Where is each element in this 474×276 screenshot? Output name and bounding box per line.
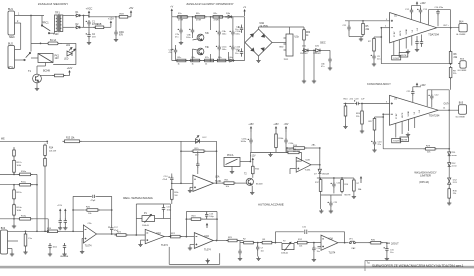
wire T1 emitter bbox=[36, 82, 38, 86]
svg-text:OUT+: OUT+ bbox=[443, 25, 449, 27]
svg-text:BU3: BU3 bbox=[1, 228, 6, 230]
wire to U1C bbox=[126, 234, 145, 236]
supply arrow bbox=[59, 209, 61, 214]
capacitor C5a decoupling bbox=[59, 219, 62, 225]
pin wire amp2 a bbox=[407, 119, 409, 131]
resistor R10a bbox=[18, 173, 33, 176]
bridge rectifier M1b bbox=[245, 29, 272, 56]
capacitor bbox=[384, 246, 389, 252]
ground U1B noninverting bbox=[82, 237, 83, 239]
capacitor C20 feedback bbox=[371, 140, 376, 146]
fuse B1 bbox=[48, 42, 62, 45]
capacitor C7 mute bbox=[415, 40, 418, 46]
wire bbox=[115, 35, 117, 38]
ground bbox=[62, 252, 66, 256]
wire contact to collector rail bbox=[240, 161, 250, 163]
svg-text:10k: 10k bbox=[299, 246, 302, 248]
wire column down bbox=[44, 168, 46, 232]
junction bbox=[319, 164, 321, 166]
wire relay to T1 bbox=[45, 63, 47, 67]
wire bbox=[111, 231, 113, 234]
wire to U1D bbox=[180, 236, 194, 238]
wire to T1 collector bbox=[36, 66, 38, 74]
resistor R12a bbox=[13, 188, 16, 200]
supply arrow +15V a bbox=[250, 126, 252, 132]
svg-text:BU4: BU4 bbox=[459, 21, 464, 23]
connector BU1 (mains) bbox=[8, 11, 15, 35]
op-amp U3A TL074 bbox=[321, 235, 338, 250]
junction bbox=[192, 60, 194, 62]
resistor R6c lower bbox=[189, 59, 202, 62]
wire to R7 bbox=[374, 36, 381, 38]
wire jog bbox=[239, 241, 241, 243]
svg-text:AUTOWLACZANIE: AUTOWLACZANIE bbox=[258, 203, 284, 207]
wire bbox=[320, 195, 322, 209]
svg-text:+V: +V bbox=[170, 6, 173, 9]
junction bbox=[83, 15, 85, 17]
svg-text:63V: 63V bbox=[119, 35, 124, 37]
svg-text:47u: 47u bbox=[169, 52, 172, 54]
wire bbox=[59, 224, 61, 226]
wire bbox=[289, 169, 291, 175]
capacitor C25 bbox=[328, 201, 333, 207]
wire rail to amp2 bbox=[450, 78, 452, 90]
svg-text:BC548: BC548 bbox=[43, 71, 51, 73]
ground bbox=[250, 191, 254, 195]
wire bbox=[275, 231, 303, 233]
pin wire 10 bbox=[411, 36, 413, 46]
wire cross-couple 2 bbox=[193, 49, 198, 50]
resistor R1B bbox=[93, 26, 106, 29]
wire bbox=[59, 214, 61, 220]
wire bbox=[381, 242, 387, 244]
resistor R7c lower bbox=[203, 59, 216, 62]
svg-text:10u: 10u bbox=[235, 29, 238, 31]
bootstrap wire amp2 bbox=[427, 89, 449, 91]
junction bbox=[72, 209, 74, 211]
wire collector up bbox=[249, 152, 251, 161]
junction bbox=[210, 16, 212, 18]
wire bbox=[301, 152, 303, 161]
supply arrow +12V at T1 bbox=[68, 70, 70, 76]
svg-text:R1c: R1c bbox=[178, 13, 182, 15]
capacitor C7b bbox=[178, 28, 183, 34]
wire bbox=[171, 183, 173, 189]
svg-text:KONCOWKA MOCY: KONCOWKA MOCY bbox=[367, 82, 391, 86]
wire bbox=[448, 166, 450, 177]
wire bbox=[218, 36, 220, 44]
svg-text:R17a: R17a bbox=[17, 162, 23, 164]
junction bbox=[171, 182, 173, 184]
op-amp U2 TDA7294 (power amp 1) bbox=[390, 13, 437, 43]
op-amp U1D TL074 bbox=[194, 233, 213, 249]
wire bbox=[416, 45, 418, 48]
wire to U1 inverting bbox=[58, 230, 84, 232]
resistor R3 (T1 base) bbox=[53, 74, 66, 77]
resistor R15b bbox=[44, 157, 47, 168]
wire bbox=[239, 254, 241, 256]
svg-text:R7c: R7c bbox=[205, 57, 209, 59]
wire bbox=[241, 55, 243, 57]
ground bbox=[230, 170, 234, 174]
wire BU1 pin2 bbox=[15, 22, 21, 24]
wire bbox=[361, 126, 363, 130]
capacitor C13b on rail bbox=[172, 48, 177, 54]
junction bbox=[303, 50, 305, 52]
capacitor C3a bias bbox=[48, 244, 51, 250]
wire limiter column top bbox=[448, 149, 450, 151]
svg-text:REG. WZMACNIANIA: REG. WZMACNIANIA bbox=[123, 196, 153, 200]
wire bbox=[320, 178, 322, 180]
wire box right bbox=[216, 141, 218, 183]
wire bbox=[130, 16, 132, 17]
wire bbox=[252, 163, 254, 166]
wire bbox=[110, 26, 112, 28]
wire feedback node down bbox=[382, 114, 384, 149]
wire bbox=[180, 34, 182, 40]
wire bbox=[98, 209, 112, 211]
op-amp U1B TL074 bbox=[83, 225, 96, 243]
capacitor C9b bbox=[216, 30, 221, 36]
junction bbox=[313, 50, 315, 52]
junction bbox=[275, 242, 277, 244]
svg-text:MUTE: MUTE bbox=[401, 55, 407, 57]
wire bbox=[111, 196, 113, 226]
svg-text:TDA7294: TDA7294 bbox=[429, 114, 440, 117]
connector BU6 bbox=[460, 61, 466, 68]
wire bbox=[341, 178, 343, 180]
wire bbox=[345, 104, 347, 107]
svg-text:ST-BY: ST-BY bbox=[393, 58, 399, 60]
ground bbox=[63, 226, 67, 230]
transistor T3b bbox=[197, 48, 204, 55]
wire to mute rail bbox=[319, 148, 321, 165]
capacitor C10b bbox=[230, 30, 235, 36]
resistor R5 input bias bbox=[362, 22, 365, 36]
wire bbox=[320, 193, 322, 195]
svg-text:+VCC: +VCC bbox=[86, 8, 93, 11]
wire bbox=[275, 132, 277, 134]
wire bbox=[164, 203, 171, 205]
wire bbox=[218, 51, 220, 61]
ground bbox=[12, 224, 16, 228]
box MUTE amp2 bbox=[400, 137, 409, 141]
wire cross-couple 1 bbox=[193, 39, 198, 40]
resistor R26c bbox=[242, 241, 256, 244]
junction bbox=[344, 242, 346, 244]
wire input 3 bbox=[0, 218, 20, 220]
ground bbox=[372, 148, 376, 152]
junction bbox=[361, 103, 363, 105]
ground bbox=[206, 259, 210, 263]
svg-text:R10a: R10a bbox=[21, 171, 27, 173]
svg-text:25V: 25V bbox=[92, 37, 96, 39]
resistor R26 input bias bbox=[361, 110, 364, 126]
wire to fuse B1 bbox=[31, 42, 48, 44]
resistor R6b (bleeder) bbox=[303, 28, 306, 41]
ground bbox=[256, 257, 260, 261]
wire bbox=[171, 174, 173, 177]
svg-text:BU1: BU1 bbox=[8, 8, 13, 11]
junction bbox=[218, 16, 220, 18]
junction bbox=[186, 218, 188, 220]
wire bbox=[204, 150, 217, 152]
ground bbox=[179, 41, 183, 45]
svg-text:OUT+: OUT+ bbox=[444, 103, 451, 105]
svg-text:+15V: +15V bbox=[248, 124, 254, 126]
ground bbox=[87, 41, 91, 45]
resistor R1b to detector bbox=[171, 188, 174, 201]
diode pair D12/D13 back-to-back bbox=[448, 178, 451, 184]
wire feedback node down bbox=[380, 28, 382, 64]
svg-text:R20 1M: R20 1M bbox=[289, 149, 297, 151]
wire bbox=[231, 166, 233, 169]
box ST-BY amp1 bbox=[392, 56, 401, 60]
wire bbox=[427, 10, 429, 25]
svg-text:TR1: TR1 bbox=[55, 11, 60, 14]
resistor R17a bbox=[13, 159, 16, 174]
wire bbox=[31, 173, 37, 175]
resistor R25 bbox=[226, 239, 239, 242]
ground bbox=[58, 226, 62, 230]
wire bbox=[218, 17, 220, 30]
svg-text:47u: 47u bbox=[321, 66, 324, 68]
capacitor C10 bootstrap bbox=[436, 9, 439, 15]
resistor R20b bbox=[286, 151, 301, 154]
resistor R13 input bbox=[63, 140, 82, 143]
wire bbox=[73, 195, 92, 197]
svg-text:SGND: SGND bbox=[406, 28, 408, 34]
diode D7 bbox=[318, 169, 321, 173]
svg-text:47u: 47u bbox=[175, 37, 178, 39]
capacitor C24 bbox=[331, 182, 336, 188]
wire switch top bbox=[41, 16, 43, 26]
wire bbox=[333, 187, 335, 193]
svg-text:ST-BY: ST-BY bbox=[394, 31, 396, 37]
capacitor C11 input bbox=[347, 25, 350, 31]
wire bbox=[31, 184, 37, 186]
capacitor C22 supply bbox=[429, 94, 434, 100]
wire ladder bottom rail bbox=[172, 60, 245, 62]
resistor R8c lower bbox=[215, 59, 228, 62]
wire to R1B bbox=[84, 26, 96, 28]
ground bbox=[328, 66, 332, 70]
supply arrow mid bbox=[206, 223, 208, 228]
wire bbox=[373, 53, 375, 55]
junction bbox=[111, 233, 113, 235]
wire to U3A bbox=[307, 242, 321, 244]
svg-text:MUTE: MUTE bbox=[400, 30, 402, 36]
junction bbox=[216, 150, 218, 152]
svg-text:+15V: +15V bbox=[57, 205, 63, 207]
ground bbox=[372, 62, 376, 66]
capacitor C31 output bbox=[386, 243, 388, 247]
capacitor C4a bias bbox=[63, 244, 66, 250]
wire bbox=[412, 87, 414, 91]
wire bbox=[25, 248, 27, 251]
wire bbox=[285, 143, 287, 152]
zener diode ZD2 bbox=[448, 163, 451, 167]
junction bbox=[180, 150, 182, 152]
box ST-BY amp2 bbox=[392, 138, 401, 142]
wire bbox=[333, 178, 335, 183]
wire U2B out bbox=[311, 164, 320, 166]
ground bbox=[80, 250, 84, 254]
relay contact PK1/A bbox=[224, 157, 240, 166]
svg-text:+12V: +12V bbox=[108, 18, 114, 21]
svg-text:R13a: R13a bbox=[21, 215, 27, 217]
wire bbox=[171, 181, 173, 183]
resistor R15a parallel bbox=[191, 150, 206, 153]
wire bbox=[250, 143, 252, 152]
wire bbox=[450, 10, 452, 28]
wire ladder top rail bbox=[172, 16, 245, 18]
svg-text:R5c: R5c bbox=[178, 57, 182, 59]
wire bbox=[253, 242, 262, 244]
resistor R3c bbox=[211, 16, 225, 19]
jumper JP1 bbox=[350, 241, 356, 243]
svg-text:470R: 470R bbox=[214, 20, 220, 22]
junction bbox=[36, 230, 38, 232]
svg-text:WE: WE bbox=[1, 139, 5, 141]
junction bbox=[228, 60, 230, 62]
supply arrow bbox=[64, 209, 66, 214]
resistor R30 bbox=[369, 241, 383, 244]
wire bbox=[175, 53, 177, 60]
wire down to power switch bbox=[30, 16, 32, 52]
pin wire 9 bbox=[405, 38, 407, 49]
junction bbox=[382, 116, 384, 118]
svg-text:2/OUT: 2/OUT bbox=[391, 242, 399, 246]
junction bbox=[380, 27, 382, 29]
junction bbox=[216, 218, 218, 220]
supply arrow +V bridge bbox=[243, 9, 245, 16]
junction bbox=[333, 177, 335, 179]
resistor R1c bbox=[176, 16, 190, 19]
svg-text:7812: 7812 bbox=[284, 59, 290, 61]
junction +V node bbox=[88, 16, 90, 18]
wire bbox=[285, 132, 287, 139]
wire to U2A + bbox=[172, 182, 193, 184]
svg-text:1000u: 1000u bbox=[241, 141, 247, 143]
wire bbox=[216, 212, 218, 241]
wire bbox=[448, 156, 450, 163]
wire inverting input bbox=[381, 27, 389, 29]
wire bbox=[46, 141, 48, 144]
wire bbox=[411, 6, 413, 9]
wire bbox=[241, 48, 243, 50]
junction output bbox=[450, 27, 452, 29]
wire ladder branch 2 bbox=[210, 17, 212, 30]
wire feedback bottom bbox=[381, 63, 450, 65]
junction bbox=[47, 230, 49, 232]
wire bbox=[140, 240, 142, 242]
wire bbox=[411, 13, 413, 19]
svg-text:1N4148: 1N4148 bbox=[322, 174, 330, 176]
wire loop right side bbox=[75, 43, 77, 64]
feedback loop U3A bbox=[274, 232, 276, 243]
wire U2A out bbox=[214, 182, 224, 184]
svg-text:U1b: U1b bbox=[295, 36, 300, 39]
svg-text:R11a: R11a bbox=[21, 181, 27, 183]
wire bbox=[232, 17, 234, 30]
junction bbox=[180, 182, 182, 184]
resistor R2b feedback bbox=[85, 209, 100, 212]
wire bbox=[13, 172, 15, 174]
wire bbox=[13, 185, 15, 190]
svg-text:BC548: BC548 bbox=[256, 184, 263, 186]
resistor R9 rail bbox=[449, 66, 452, 79]
svg-text:LIMITER: LIMITER bbox=[420, 174, 431, 178]
svg-text:+V: +V bbox=[243, 6, 246, 9]
ground U1C noninverting bbox=[141, 239, 146, 241]
ground U1D noninverting bbox=[190, 244, 194, 246]
junction output node bbox=[386, 242, 388, 244]
junction bbox=[72, 230, 74, 232]
wire bbox=[257, 243, 259, 246]
svg-text:ST-BY: ST-BY bbox=[393, 141, 399, 143]
svg-text:+40V: +40V bbox=[420, 2, 426, 5]
wire bbox=[237, 240, 243, 242]
ground bbox=[352, 195, 356, 199]
svg-text:12V: 12V bbox=[55, 57, 60, 60]
svg-text:SUBWOOFER ZE WZMACNIACZEM MOCY: SUBWOOFER ZE WZMACNIACZEM MOCY NA TDA729… bbox=[372, 264, 464, 268]
supply arrow +15V b bbox=[275, 126, 277, 132]
wire fuse to loop bbox=[62, 42, 76, 44]
wire bbox=[189, 187, 191, 188]
capacitor bbox=[162, 206, 165, 212]
svg-text:R12a: R12a bbox=[17, 192, 23, 194]
wire bbox=[448, 90, 450, 110]
LED indicator box bbox=[181, 140, 217, 142]
wire bbox=[189, 245, 191, 247]
ground bbox=[268, 153, 272, 157]
wire bbox=[43, 15, 45, 17]
diode D1b bbox=[302, 49, 309, 53]
switch contact bbox=[41, 25, 50, 34]
wire inverting input bbox=[383, 113, 389, 115]
wire bbox=[241, 31, 243, 33]
connector BU5 speaker 2 bbox=[459, 105, 467, 114]
relay PK1 bbox=[38, 54, 53, 63]
wire bbox=[426, 90, 428, 107]
wire rectified rail bbox=[82, 15, 90, 17]
wire bbox=[201, 218, 217, 220]
diode D3b bbox=[227, 15, 234, 18]
resistor R2B (to +5V) bbox=[117, 16, 130, 19]
mute pin wire bbox=[393, 42, 395, 55]
wire bbox=[64, 75, 70, 77]
wire rail to U2B bbox=[250, 151, 288, 153]
wire bbox=[13, 219, 15, 224]
wire into regulator bbox=[289, 27, 291, 34]
wire bbox=[155, 218, 171, 220]
resistor R17b bbox=[319, 178, 322, 193]
svg-text:BU5: BU5 bbox=[459, 103, 464, 105]
output net label bbox=[387, 242, 390, 244]
resistor R18a bbox=[292, 147, 307, 150]
wire bbox=[330, 195, 332, 202]
junction bbox=[448, 148, 450, 150]
op-amp U1C TL074 bbox=[145, 229, 164, 243]
ground bbox=[302, 79, 306, 83]
wire bbox=[170, 204, 172, 219]
wire bbox=[416, 36, 418, 40]
wire emitter bbox=[251, 186, 253, 191]
wire bbox=[386, 252, 388, 257]
connector BU2 (power switch) bbox=[8, 46, 15, 69]
wire bbox=[181, 150, 193, 152]
